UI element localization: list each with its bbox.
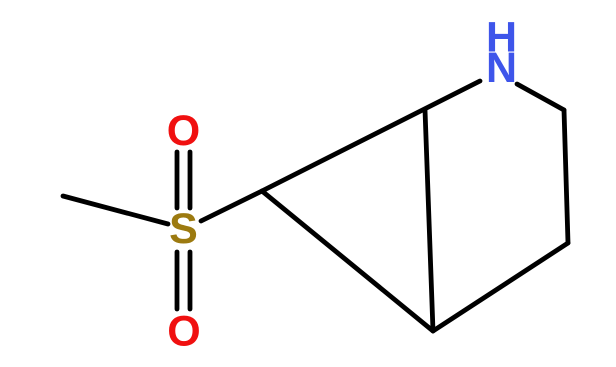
svg-text:O: O <box>167 307 200 355</box>
bond chain C7-C1-N upper diagonal <box>262 81 480 191</box>
double bond S=O top, line 2 <box>188 152 193 208</box>
svg-text:N: N <box>486 44 517 92</box>
double bond S=O top, line 1 <box>175 152 180 208</box>
bond C3-C4 right vertical edge <box>564 110 568 243</box>
bond chain C5-C6-C7 lower left diagonal <box>262 191 433 331</box>
bond bridge C1-C9-C5 inner vertical <box>425 110 433 331</box>
double bond S=O bottom, line 2 <box>188 252 193 309</box>
double bond S=O bottom, line 1 <box>175 252 180 309</box>
bond H3C-S (methyl to sulfur) <box>63 196 168 224</box>
bond S-C7 (sulfur to ring carbon) <box>201 191 262 221</box>
svg-text:S: S <box>169 205 198 253</box>
svg-text:O: O <box>167 107 200 155</box>
bond N-C3 (N to right ring carbon) <box>517 84 564 110</box>
bond C4-C5 lower right diagonal <box>433 243 568 331</box>
